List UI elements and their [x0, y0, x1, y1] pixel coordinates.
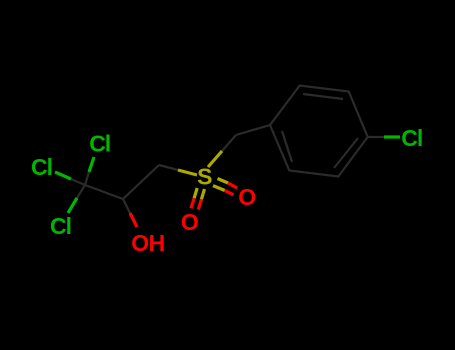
- wire ring-Cl dark half: [368, 136, 384, 138]
- wire C3-S dark half: [159, 165, 178, 170]
- ring inner double bonds: [303, 94, 343, 99]
- wire S-CH2 dark half: [222, 135, 236, 151]
- benzene ring: [270, 86, 368, 177]
- svg-text:S: S: [197, 164, 212, 190]
- svg-text:Cl: Cl: [31, 154, 53, 180]
- svg-text:O: O: [181, 209, 199, 235]
- wire red OH half-bond: [130, 213, 137, 227]
- svg-text:Cl: Cl: [50, 213, 72, 239]
- wire green half-bonds: [55, 137, 400, 213]
- wire C1-C2: [85, 185, 123, 199]
- node C1 dark half-bonds to three Cl: [85, 172, 89, 185]
- wire red S=O half-bonds: [191, 183, 237, 210]
- wire olive half-bonds: [178, 151, 228, 199]
- wire carbon skeleton: [71, 86, 384, 214]
- svg-text:Cl: Cl: [89, 130, 111, 156]
- wire CH2-ring: [236, 125, 270, 135]
- svg-text:OH: OH: [131, 230, 165, 256]
- svg-text:O: O: [238, 184, 256, 210]
- wire C2-OH dark half: [123, 199, 130, 213]
- svg-text:Cl: Cl: [401, 125, 423, 151]
- wire C2-C3: [123, 165, 159, 199]
